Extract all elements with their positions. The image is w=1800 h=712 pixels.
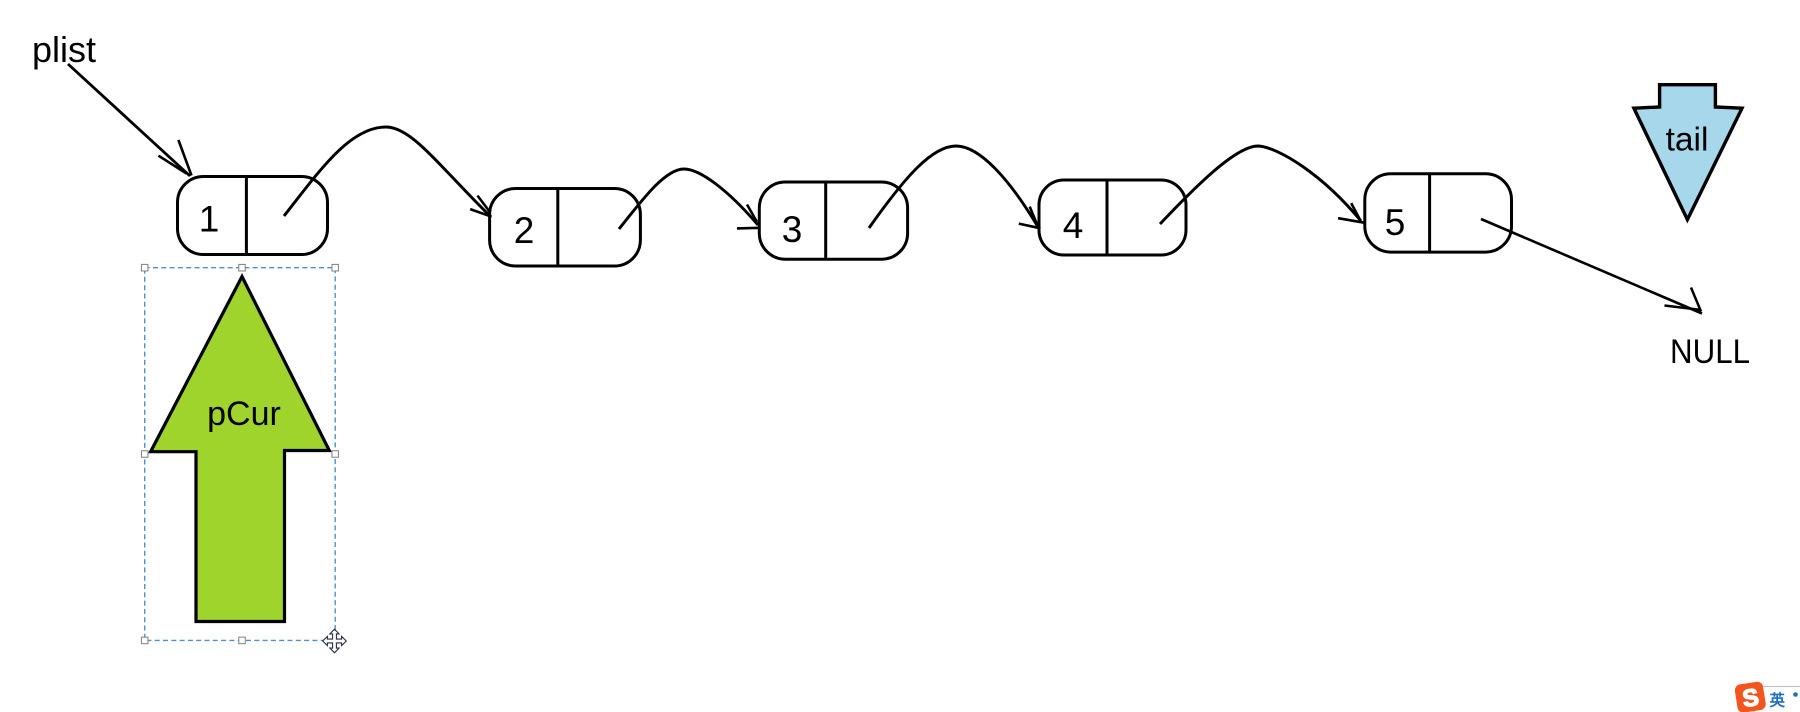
svg-text:1: 1 xyxy=(199,199,220,240)
sogou ime bar xyxy=(1754,687,1800,712)
arrowhead node5 (barb upper) xyxy=(1351,203,1360,219)
arrowhead node2 (barb upper) xyxy=(478,196,490,212)
svg-text:3: 3 xyxy=(782,209,803,250)
arrowhead node5 (barb horizontal) xyxy=(1338,218,1365,223)
node 3 box xyxy=(759,182,907,259)
svg-text:2: 2 xyxy=(514,210,535,251)
node 5 box xyxy=(1365,174,1512,252)
pCur green arrow xyxy=(151,277,330,622)
sogou logo tile xyxy=(1734,681,1767,712)
arrowhead node4 (barb horizontal) xyxy=(1019,224,1041,229)
selection handle mid-right xyxy=(332,451,339,458)
node 3 divider xyxy=(824,182,827,259)
selection box dashed xyxy=(145,268,336,641)
sogou ime dot xyxy=(1793,692,1798,697)
wire node3 next pointer curve to node4 xyxy=(869,146,1038,228)
arrowhead node4 (barb upper) xyxy=(1030,207,1038,226)
arrowhead plist (barb upper) xyxy=(178,140,191,176)
node 1 divider xyxy=(245,177,248,255)
wire node5 next pointer to NULL xyxy=(1481,219,1702,314)
arrowhead NULL (barb upper) xyxy=(1691,288,1701,312)
svg-text:4: 4 xyxy=(1063,205,1084,246)
svg-text:pCur: pCur xyxy=(207,395,281,433)
selection handle mid-left xyxy=(141,451,148,458)
arrowhead NULL (barb horizontal) xyxy=(1665,306,1700,310)
wire node1 next pointer curve to node2 xyxy=(284,127,490,216)
selection handle top-right xyxy=(332,264,339,271)
svg-text:英: 英 xyxy=(1769,691,1786,710)
selection handle top-left xyxy=(141,264,148,271)
node 1 box xyxy=(178,177,328,255)
wire node2 next pointer curve to node3 xyxy=(619,169,758,229)
arrowhead node2 (barb horizontal) xyxy=(470,209,491,217)
arrowhead node3 (barb upper) xyxy=(747,205,757,223)
svg-text:5: 5 xyxy=(1385,202,1406,243)
node 2 box xyxy=(490,189,641,267)
selection handle bottom-mid xyxy=(239,637,246,644)
move cursor icon xyxy=(323,629,347,653)
svg-text:plist: plist xyxy=(32,29,96,70)
node 2 divider xyxy=(556,189,559,267)
wire plist arrow shaft xyxy=(68,64,190,176)
tail arrow shape xyxy=(1634,85,1742,220)
arrowhead plist (barb lower) xyxy=(159,156,187,174)
selection handle bottom-left xyxy=(141,637,148,644)
wire node4 next pointer curve to node5 xyxy=(1160,146,1361,224)
selection handle top-mid xyxy=(239,264,246,271)
arrowhead node3 (barb horizontal) xyxy=(737,227,761,230)
node 4 divider xyxy=(1106,180,1109,255)
svg-text:NULL: NULL xyxy=(1670,333,1750,371)
node 4 box xyxy=(1039,180,1186,255)
node 5 divider xyxy=(1428,174,1431,252)
svg-text:tail: tail xyxy=(1666,122,1709,159)
